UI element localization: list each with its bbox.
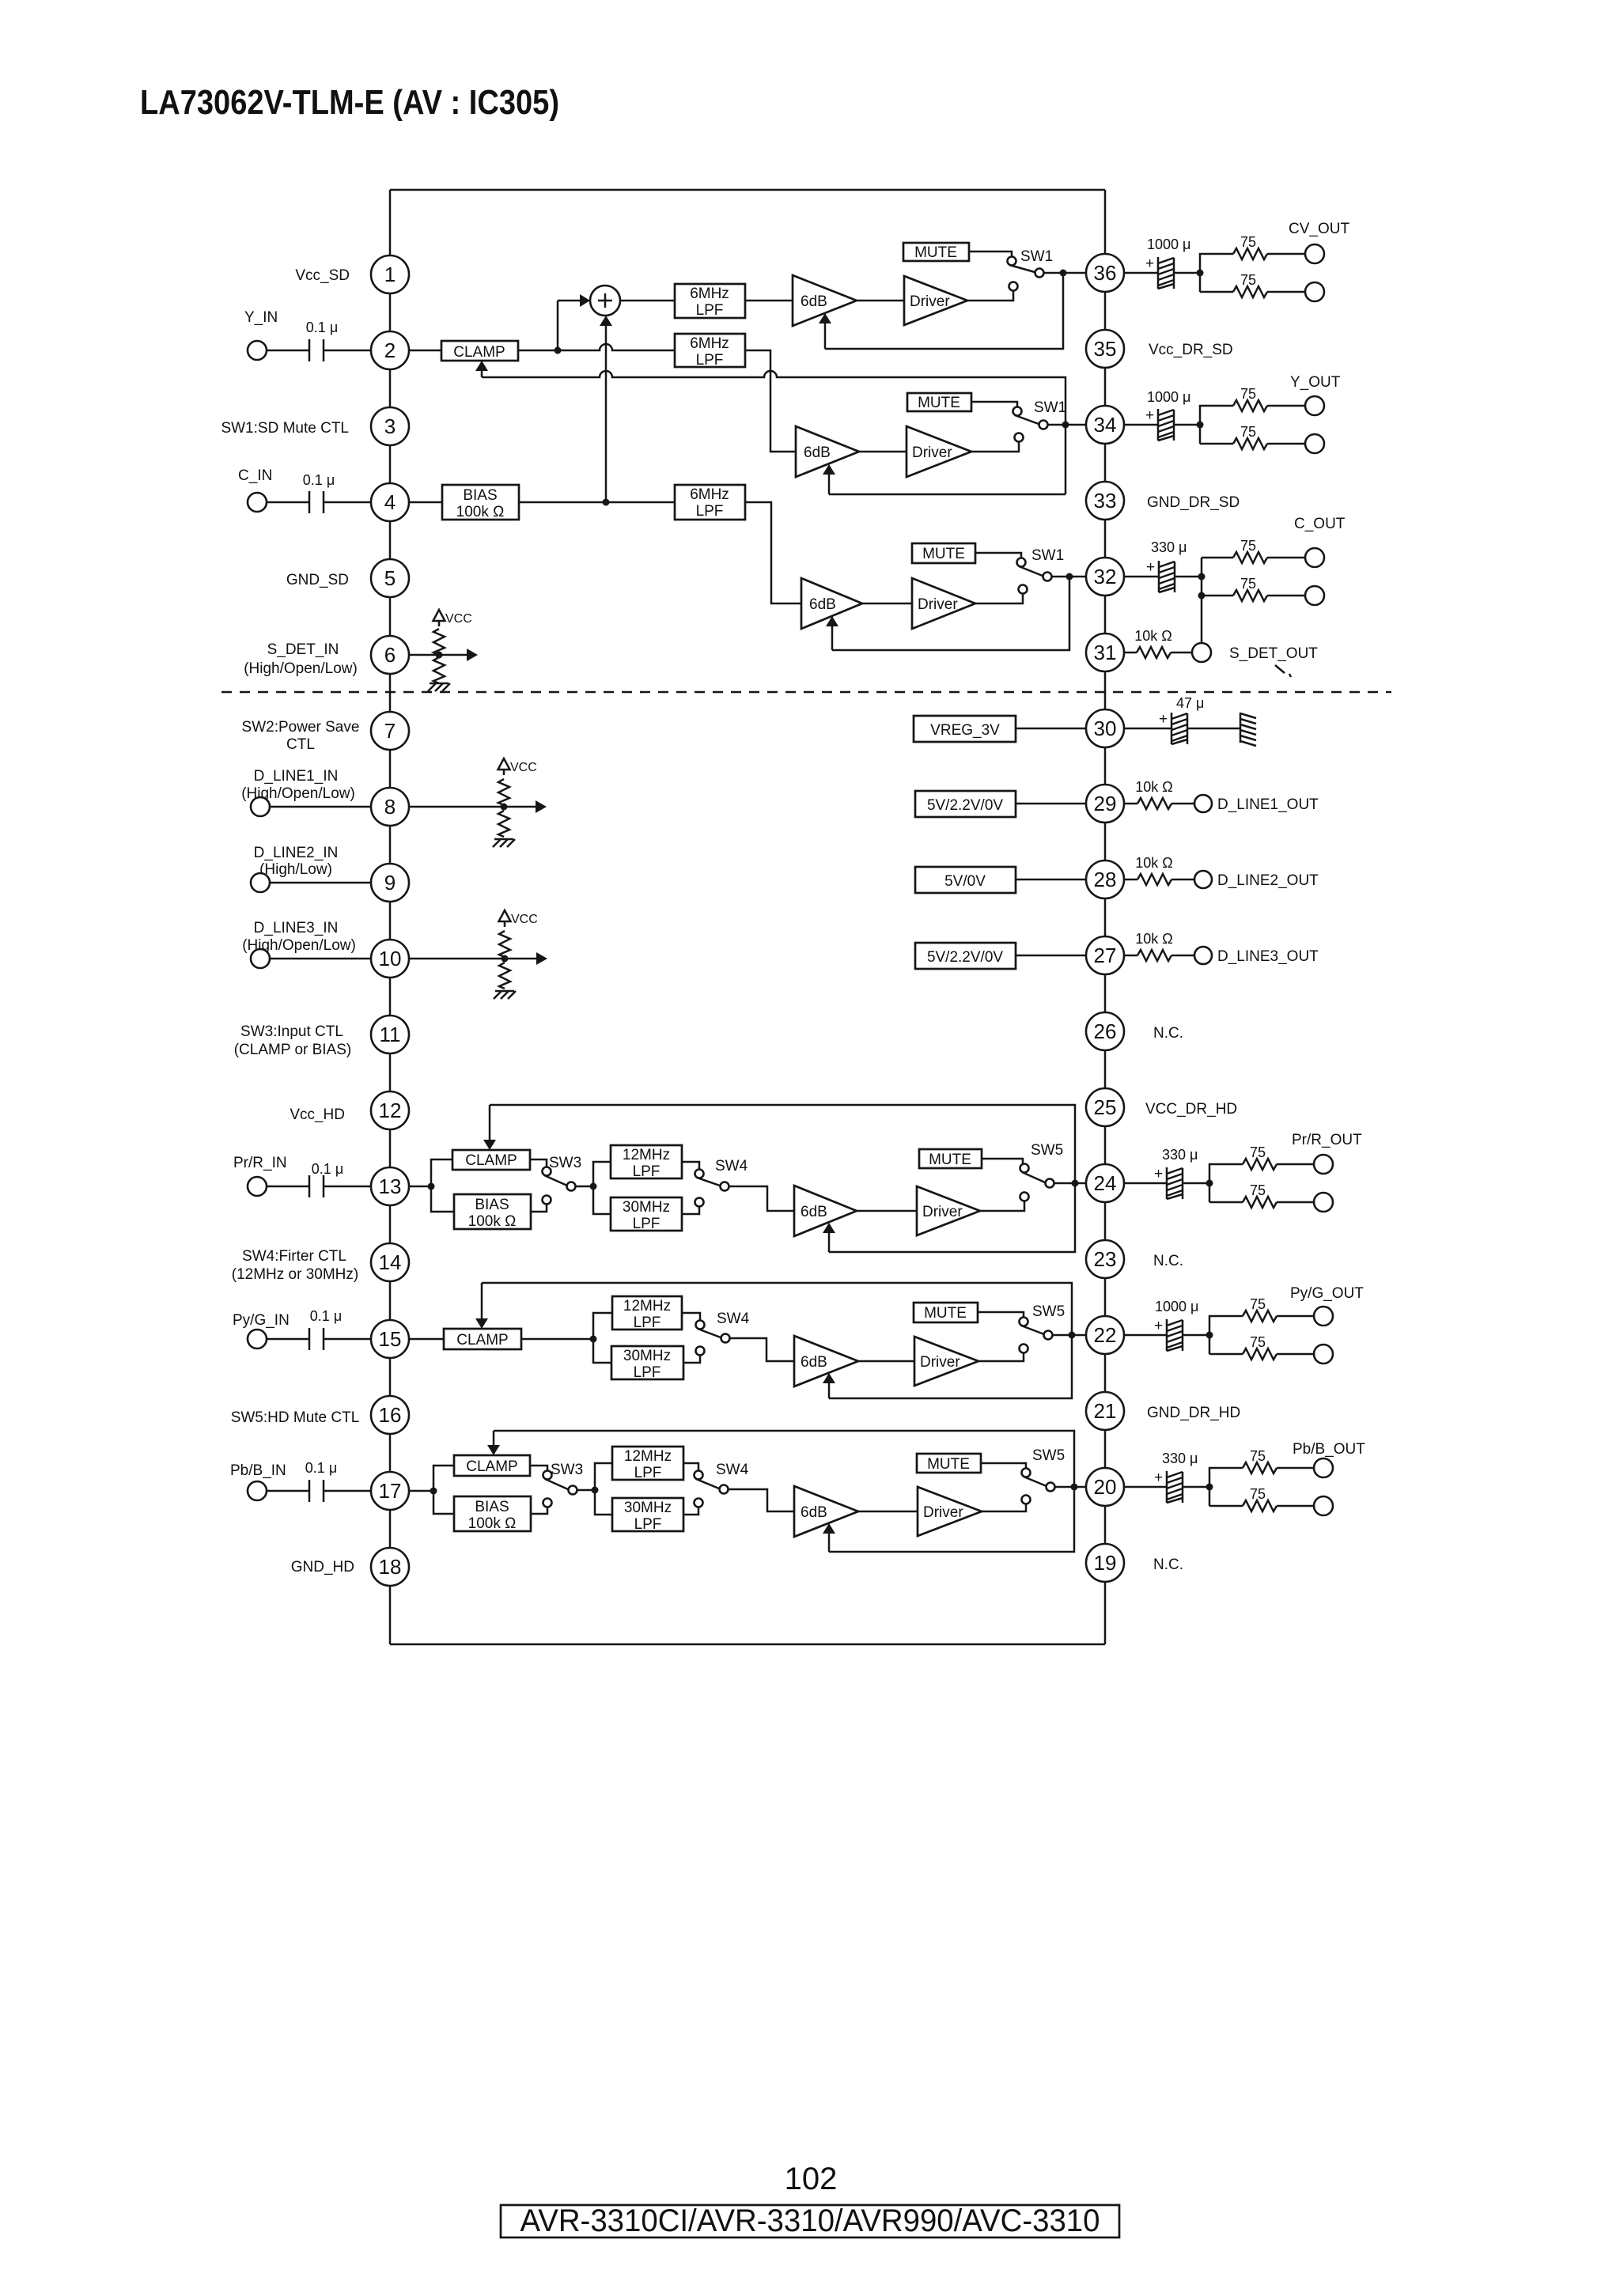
node pin22 (1069, 1332, 1076, 1339)
wire LPF3 out down to row3 amp (745, 502, 801, 603)
wire Y_IN to cap (267, 350, 309, 352)
wire node to 30MHz LPF pin17 (595, 1490, 612, 1515)
svg-text:Vcc_DR_SD: Vcc_DR_SD (1149, 342, 1233, 358)
wire switch to pin36 (1044, 272, 1087, 274)
wire driver out to switch bottom row3 (975, 594, 1023, 603)
svg-text:6dB: 6dB (801, 1354, 827, 1371)
pin 29 (1086, 785, 1124, 823)
svg-text:6MHz: 6MHz (690, 286, 729, 302)
svg-text:30: 30 (1094, 717, 1117, 740)
arrow up into 6dB row22 (828, 1383, 831, 1398)
svg-text:(12MHz or 30MHz): (12MHz or 30MHz) (232, 1266, 358, 1283)
SW3 bottom contact pin17 (543, 1499, 552, 1507)
wire MUTE to switch row20 (981, 1463, 1026, 1468)
pin 25 (1086, 1088, 1124, 1126)
SW4 blade pin17 (696, 1479, 719, 1488)
wire block to pin30 (1016, 728, 1087, 730)
wire resistor to connector (1171, 879, 1194, 881)
node after SW3 pin17 (592, 1487, 599, 1494)
SW4 common (721, 1182, 729, 1191)
wire node to CLAMP (431, 1159, 452, 1186)
clamp control line row22 (482, 1283, 1072, 1398)
wire pin36 to cap (1123, 272, 1158, 274)
svg-text:CLAMP: CLAMP (456, 1332, 508, 1348)
BIAS block pin17 (454, 1496, 531, 1531)
svg-text:BIAS: BIAS (475, 1197, 509, 1213)
resistor 10k pin29 (1137, 798, 1171, 809)
wire pin2 to CLAMP (408, 350, 441, 352)
Pb/B_OUT top connector (1314, 1458, 1333, 1477)
wire CLAMP out with hop over vertical (518, 344, 675, 350)
svg-text:1000 μ: 1000 μ (1147, 389, 1190, 405)
svg-text:GND_HD: GND_HD (291, 1559, 354, 1575)
pin 33 (1086, 482, 1124, 520)
svg-text:35: 35 (1094, 337, 1117, 361)
resistor 75 top pin24 (1243, 1159, 1277, 1170)
node after BIAS (603, 499, 610, 506)
svg-text:5V/2.2V/0V: 5V/2.2V/0V (927, 949, 1003, 966)
node pin17 (430, 1488, 437, 1495)
pin 9 (371, 864, 409, 902)
wire pin30 to cap (1123, 728, 1171, 730)
IC boundary right wire (1104, 190, 1107, 1644)
wire to Pr/R_OUT bottom connector (1277, 1201, 1314, 1204)
resistor 75 bottom pin22 (1243, 1348, 1277, 1360)
CLAMP block pin15 (444, 1329, 521, 1349)
wire down to S_DET_OUT (1201, 596, 1203, 643)
svg-text:24: 24 (1094, 1171, 1117, 1195)
pin 11 (371, 1016, 409, 1053)
pin 17 (371, 1472, 409, 1510)
wire to C_OUT bottom connector (1267, 595, 1305, 597)
switch top contact row2 (1013, 407, 1022, 416)
pin 21 (1086, 1392, 1124, 1430)
wire pin27 to resistor (1123, 955, 1137, 957)
wire MUTE to switch row2 (971, 402, 1017, 407)
wire cap to pin2 (324, 350, 372, 352)
svg-text:Pb/B_OUT: Pb/B_OUT (1293, 1441, 1365, 1458)
svg-text:SW3:Input CTL: SW3:Input CTL (240, 1023, 343, 1040)
svg-text:Driver: Driver (920, 1354, 960, 1371)
wire pin20 to cap (1123, 1486, 1167, 1488)
SW4 common pin17 (720, 1485, 729, 1494)
wire LPF2 out down to row2 amp (745, 350, 796, 452)
D_LINE1_IN input connector (251, 797, 270, 816)
wire 6dB to Driver row22 (858, 1360, 914, 1363)
divider dashed line (221, 691, 1391, 694)
pin 20 (1086, 1468, 1124, 1506)
wire driver out to SW5 bottom row22 (978, 1353, 1024, 1361)
svg-text:SW1: SW1 (1034, 399, 1066, 416)
VCC symbol pin10 (499, 910, 511, 927)
svg-text:8: 8 (384, 795, 396, 819)
svg-text:LPF: LPF (634, 1364, 661, 1381)
adder (590, 286, 620, 316)
feedback row3 down and left (832, 577, 1069, 650)
svg-text:21: 21 (1094, 1399, 1117, 1423)
BIAS block pin13 (454, 1194, 531, 1229)
6dB amp row1 (793, 275, 857, 326)
svg-text:Vcc_SD: Vcc_SD (295, 267, 350, 284)
wire node to 12MHz LPF pin17 (595, 1463, 612, 1490)
svg-text:Driver: Driver (910, 293, 950, 310)
svg-text:AVR-3310CI/AVR-3310/AVR990/AVC: AVR-3310CI/AVR-3310/AVR990/AVC-3310 (520, 2203, 1100, 2238)
svg-text:10k Ω: 10k Ω (1134, 628, 1171, 644)
svg-text:4: 4 (384, 490, 396, 514)
svg-text:100k Ω: 100k Ω (456, 504, 505, 520)
resistor 75 bottom pin34 (1233, 438, 1267, 449)
wire 12MHz to SW4 top pin17 (683, 1463, 698, 1471)
svg-text:Driver: Driver (923, 1504, 963, 1521)
svg-text:75: 75 (1240, 234, 1256, 250)
wire SW3 to node pin17 (577, 1489, 595, 1492)
pin 28 (1086, 861, 1124, 898)
SW4 blade pin15 (698, 1329, 721, 1337)
IC boundary left wire (389, 190, 392, 1644)
footer model box (501, 2205, 1119, 2237)
arrow up into 6dB row2 (828, 474, 831, 494)
pin 13 (371, 1167, 409, 1205)
6dB amp row2 (796, 426, 859, 477)
wire pin4 to BIAS (408, 501, 442, 504)
SW3 top contact (543, 1167, 551, 1176)
svg-text:VREG_3V: VREG_3V (930, 722, 1000, 739)
svg-text:6dB: 6dB (801, 1504, 827, 1521)
Pb/B_OUT bottom connector (1314, 1496, 1333, 1515)
node pin32 (1066, 573, 1073, 581)
capacitor 0.1u pin2 (308, 339, 311, 361)
capacitor 1000u pin36 (1158, 257, 1174, 289)
lower node pin32 (1198, 592, 1206, 600)
arrow down into CLAMP pin17 (493, 1431, 495, 1446)
svg-text:6: 6 (384, 643, 396, 667)
wire to Pb/B_OUT top connector (1277, 1467, 1314, 1470)
wire cap to node (1183, 1182, 1209, 1185)
wire D_LINE2_IN to pin9 (270, 882, 372, 884)
svg-text:SW5: SW5 (1032, 1303, 1065, 1320)
arrow up into CLAMP (481, 370, 483, 377)
switch blade row3 (1019, 566, 1043, 576)
pin 10 (371, 940, 409, 978)
svg-text:+: + (1154, 1470, 1163, 1486)
node after SW3 (590, 1183, 597, 1190)
Pb/B_IN input connector (248, 1481, 267, 1500)
svg-text:12MHz: 12MHz (624, 1448, 672, 1465)
svg-text:28: 28 (1094, 868, 1117, 891)
resistor 75 top pin22 (1243, 1311, 1277, 1322)
svg-text:GND_DR_SD: GND_DR_SD (1147, 494, 1240, 511)
capacitor 330u pin24 (1167, 1167, 1183, 1199)
svg-text:SW4: SW4 (717, 1311, 750, 1327)
svg-text:20: 20 (1094, 1475, 1117, 1499)
svg-text:SW5: SW5 (1032, 1447, 1065, 1464)
svg-text:Driver: Driver (922, 1204, 963, 1220)
wire pin31 to resistor (1123, 652, 1137, 654)
CV_OUT bottom connector (1305, 282, 1324, 301)
node (501, 804, 508, 811)
svg-text:N.C.: N.C. (1153, 1557, 1183, 1573)
D_LINE1_OUT connector (1194, 795, 1212, 812)
wire 6dB to Driver row2 (859, 451, 907, 453)
wire D_LINE3_IN to pin10 (270, 958, 372, 960)
svg-text:GND_SD: GND_SD (286, 572, 349, 588)
wire node to 30MHz LPF (593, 1186, 611, 1214)
node pin32 out (1198, 573, 1206, 581)
resistor 75 top pin20 (1243, 1462, 1277, 1473)
svg-text:SW4: SW4 (716, 1462, 749, 1478)
svg-text:SW2:Power Save: SW2:Power Save (242, 719, 360, 736)
node (502, 955, 509, 963)
Py/G_OUT bottom connector (1314, 1345, 1333, 1364)
svg-text:LPF: LPF (634, 1465, 662, 1481)
wire BIAS to SW3 bottom (531, 1204, 547, 1212)
MUTE block row2 (907, 393, 971, 411)
SW3 common pin17 (569, 1486, 577, 1495)
svg-text:VCC: VCC (510, 761, 537, 774)
6dB amp row3 (801, 578, 862, 629)
pin 12 (371, 1091, 409, 1129)
svg-text:6dB: 6dB (801, 1204, 827, 1220)
6MHz LPF block row3 (675, 485, 745, 520)
arrow up into 6dB row24 (828, 1232, 831, 1252)
capacitor 0.1u pin17 (308, 1480, 311, 1502)
svg-text:SW4:Firter CTL: SW4:Firter CTL (242, 1248, 346, 1265)
svg-text:C_OUT: C_OUT (1294, 516, 1346, 532)
pin 6 (371, 636, 409, 674)
pin 19 (1086, 1544, 1124, 1582)
svg-text:SW1: SW1 (1020, 248, 1053, 265)
svg-text:Y_IN: Y_IN (244, 309, 278, 326)
node pin22 out (1206, 1332, 1213, 1339)
wire cap to pin13 (324, 1186, 372, 1188)
wire SW5 to pin20 (1055, 1486, 1087, 1488)
wire MUTE to switch row3 (975, 553, 1021, 558)
wire pin28 to resistor (1123, 879, 1137, 881)
resistor VCC to node (433, 629, 445, 655)
pin 18 (371, 1548, 409, 1586)
svg-text:+: + (1154, 1166, 1163, 1182)
svg-text:LPF: LPF (696, 302, 724, 319)
wire SW5 to pin24 (1054, 1182, 1087, 1185)
svg-text:30MHz: 30MHz (624, 1500, 672, 1516)
SW5 common row20 (1047, 1483, 1055, 1492)
SW5 blade row20 (1024, 1477, 1047, 1486)
svg-text:27: 27 (1094, 944, 1117, 967)
wire node up to adder (557, 301, 559, 350)
svg-text:36: 36 (1094, 261, 1117, 285)
svg-text:D_LINE3_OUT: D_LINE3_OUT (1217, 948, 1319, 965)
node pin20 out (1206, 1484, 1213, 1491)
node pin36 (1060, 270, 1067, 277)
wire CLAMP to SW3 top (530, 1159, 547, 1167)
wire pin8 right (408, 806, 536, 808)
Pr/R_IN input connector (248, 1177, 267, 1196)
svg-text:12: 12 (379, 1099, 402, 1122)
svg-text:(CLAMP or BIAS): (CLAMP or BIAS) (234, 1042, 352, 1058)
svg-text:CLAMP: CLAMP (453, 344, 505, 361)
node (436, 652, 443, 659)
wire cap to pin4 (324, 501, 372, 504)
wire block to pin29 (1016, 803, 1087, 805)
resistor 75 bottom pin36 (1233, 286, 1267, 297)
wire resistor to connector (1171, 803, 1194, 805)
wire 30MHz to SW4 bottom pin15 (683, 1355, 700, 1363)
svg-text:1000 μ: 1000 μ (1147, 236, 1190, 252)
ground pin6 (428, 683, 450, 691)
wire pin6 right (408, 654, 467, 656)
ground pin8 (493, 839, 515, 847)
arrow up into 6dB row3 (831, 626, 834, 650)
svg-text:Driver: Driver (912, 444, 952, 461)
MUTE block row1 (903, 243, 969, 261)
Driver amp row22 (914, 1337, 978, 1386)
arrow down into CLAMP pin13 (489, 1105, 491, 1140)
wire node to CLAMP pin17 (433, 1466, 454, 1491)
svg-text:5V/2.2V/0V: 5V/2.2V/0V (927, 797, 1003, 814)
resistor 10k pin31 (1137, 647, 1171, 658)
VCC symbol pin6 (433, 610, 445, 626)
SW5 common row22 (1044, 1331, 1053, 1340)
wire SW5 to pin22 (1053, 1334, 1087, 1337)
svg-text:23: 23 (1094, 1247, 1117, 1271)
capacitor 330u pin20 (1167, 1471, 1183, 1503)
svg-text:75: 75 (1240, 538, 1256, 554)
svg-text:0.1 μ: 0.1 μ (312, 1161, 343, 1177)
pin 7 (371, 712, 409, 750)
switch bottom contact row2 (1015, 433, 1024, 442)
SW4 blade (697, 1178, 720, 1186)
CLAMP block pin17 (454, 1455, 530, 1476)
wire 30MHz to SW4 bottom (682, 1206, 699, 1214)
arrow into IC (536, 952, 547, 965)
SW5 blade row22 (1021, 1326, 1044, 1334)
svg-text:25: 25 (1094, 1095, 1117, 1119)
wire D_LINE1_IN to pin8 (270, 806, 372, 808)
S_DET_OUT connector (1192, 643, 1211, 662)
svg-text:LPF: LPF (634, 1516, 662, 1533)
30MHz LPF block pin13 (611, 1197, 682, 1231)
wire SW4 to 6dB row22 (730, 1338, 794, 1361)
svg-text:1000 μ: 1000 μ (1155, 1299, 1198, 1314)
wire pin29 to resistor (1123, 803, 1137, 805)
arrow down into CLAMP pin15 (481, 1283, 483, 1319)
svg-text:N.C.: N.C. (1153, 1025, 1183, 1042)
SW4 top contact pin15 (696, 1321, 705, 1330)
wire pin10 right (408, 958, 536, 960)
svg-text:Py/G_IN: Py/G_IN (233, 1312, 290, 1329)
wire node to 30MHz LPF pin15 (593, 1339, 611, 1363)
svg-text:19: 19 (1094, 1551, 1117, 1575)
svg-text:6dB: 6dB (804, 444, 831, 461)
CV_OUT top connector (1305, 244, 1324, 263)
wire node to 12MHz LPF (593, 1162, 611, 1186)
svg-text:LPF: LPF (633, 1163, 660, 1180)
resistor 75 top pin32 (1233, 552, 1267, 563)
pin 4 (371, 483, 409, 521)
wire SW4 to 6dB row20 (729, 1489, 794, 1511)
SW3 common (567, 1182, 576, 1191)
svg-text:CLAMP: CLAMP (465, 1152, 517, 1169)
IC boundary top wire (390, 189, 1105, 191)
svg-text:0.1 μ: 0.1 μ (305, 1460, 337, 1476)
wire BIAS to SW3 bottom pin17 (531, 1507, 547, 1514)
svg-text:11: 11 (380, 1023, 401, 1046)
wire node to BIAS pin17 (433, 1491, 454, 1514)
svg-text:16: 16 (379, 1403, 402, 1427)
SW5 bottom contact row20 (1022, 1496, 1031, 1504)
svg-text:MUTE: MUTE (918, 395, 960, 411)
VCC symbol pin8 (498, 758, 510, 775)
wire LPF1 to 6dB amp (745, 300, 793, 302)
svg-text:S_DET_IN: S_DET_IN (267, 641, 339, 658)
SW3 bottom contact (543, 1196, 551, 1205)
wire to CV_OUT bottom connector (1267, 291, 1305, 293)
wire SW3 to node (576, 1186, 593, 1188)
svg-text:9: 9 (384, 871, 396, 895)
svg-text:7: 7 (384, 719, 396, 743)
wire cap to gnd plate (1187, 728, 1240, 730)
capacitor 47u pin30 (1171, 713, 1187, 744)
svg-text:MUTE: MUTE (929, 1152, 971, 1168)
svg-text:75: 75 (1250, 1486, 1266, 1502)
pin 23 (1086, 1240, 1124, 1278)
wire switch to pin34 (1048, 424, 1087, 426)
svg-text:MUTE: MUTE (927, 1456, 970, 1473)
wire to Y_OUT bottom connector (1267, 443, 1305, 445)
wire into adder with arrow (558, 300, 581, 302)
wire pin13 to node (408, 1186, 431, 1188)
svg-text:6MHz: 6MHz (690, 335, 729, 352)
stray mark (1275, 665, 1291, 677)
svg-text:30MHz: 30MHz (623, 1348, 671, 1364)
svg-text:Pr/R_OUT: Pr/R_OUT (1292, 1132, 1362, 1148)
D_LINE2_IN input connector (251, 873, 270, 892)
svg-text:330 μ: 330 μ (1162, 1147, 1198, 1163)
node pin20 (1071, 1484, 1078, 1491)
pin 14 (371, 1243, 409, 1281)
12MHz LPF block pin15 (612, 1296, 682, 1330)
switch bottom contact row1 (1009, 282, 1018, 291)
Y_OUT bottom connector (1305, 434, 1324, 453)
wire 6dB to Driver row20 (858, 1511, 918, 1513)
pin 8 (371, 788, 409, 826)
svg-text:18: 18 (379, 1555, 402, 1579)
svg-text:Pr/R_IN: Pr/R_IN (233, 1155, 287, 1171)
wire pin15 to CLAMP (408, 1338, 444, 1341)
wire cap to node (1175, 576, 1202, 578)
feedback row2 down and left (829, 494, 1065, 496)
resistor 75 bottom pin20 (1243, 1500, 1277, 1511)
ground plate symbol pin30 (1240, 713, 1256, 746)
svg-text:SW3: SW3 (551, 1462, 583, 1478)
pin 15 (371, 1320, 409, 1358)
svg-text:12MHz: 12MHz (623, 1298, 671, 1314)
wire resistor to connector (1171, 955, 1194, 957)
wire pin22 to cap (1123, 1334, 1167, 1337)
svg-text:CV_OUT: CV_OUT (1289, 221, 1349, 237)
svg-text:5V/0V: 5V/0V (944, 873, 986, 890)
svg-text:CTL: CTL (286, 736, 315, 753)
wire to CV_OUT top connector (1267, 253, 1305, 255)
svg-text:BIAS: BIAS (475, 1499, 509, 1515)
pin 35 (1086, 330, 1124, 368)
svg-text:0.1 μ: 0.1 μ (303, 472, 335, 488)
svg-text:SW4: SW4 (715, 1158, 748, 1174)
clamp control line row24 (490, 1105, 1075, 1252)
Py/G_OUT top connector (1314, 1307, 1333, 1326)
resistor 75 top pin36 (1233, 248, 1267, 259)
svg-text:6dB: 6dB (809, 596, 836, 613)
